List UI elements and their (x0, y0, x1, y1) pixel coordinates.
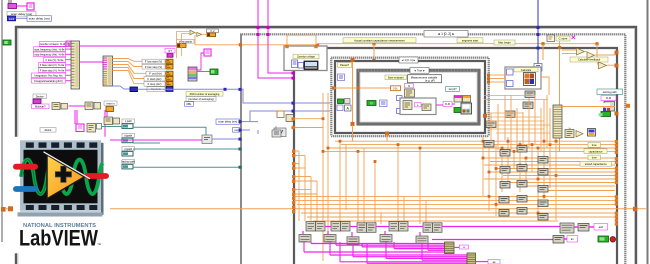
error node (106, 107, 114, 112)
orange staircase from left tunnels (296, 151, 318, 194)
calculate label (514, 68, 538, 72)
orange wire from striped block to border (562, 106, 615, 108)
violet wires into border (240, 121, 259, 123)
unbundle node grid right (484, 141, 548, 221)
stored capacitance label (580, 161, 612, 166)
svg-text:%.3f: %.3f (445, 103, 450, 106)
x-large icon near 272 (272, 130, 281, 137)
pct label (443, 102, 452, 107)
green block right (601, 112, 611, 117)
teal wire 3 (133, 148, 240, 150)
far right structure border (647, 0, 649, 264)
svg-text:◄ True ►: ◄ True ► (414, 69, 426, 73)
orange wire mid (294, 118, 324, 120)
comment box top (207, 29, 219, 33)
cascade bundle nodes row 2 (299, 235, 428, 245)
svg-text:DBL: DBL (393, 87, 399, 91)
long orange wire to sequence (195, 35, 597, 45)
wires feedback (562, 49, 576, 51)
numeric green block (338, 99, 344, 104)
DBL coercion box (185, 102, 194, 107)
svg-text:F stop (Hz): F stop (Hz) (148, 82, 162, 86)
Vrms points label (177, 39, 194, 43)
svg-text:scan delay (ms): scan delay (ms) (218, 120, 237, 124)
small orange node mid (277, 111, 284, 118)
time label 2 (588, 155, 601, 160)
comment Max begin (494, 40, 515, 45)
Multivariadic label (32, 104, 50, 109)
vrms pulse label (165, 49, 175, 53)
wire to bundle green (197, 71, 210, 73)
orange tunnels left border W2 (292, 150, 295, 214)
wire device row (69, 105, 86, 107)
svg-text:storing path: storing path (603, 90, 618, 94)
icon beige 2nd row (87, 124, 96, 133)
teal stub from icon to path box (102, 126, 123, 128)
sweep parameter indicator labels (142, 59, 165, 91)
orange drops to connector area (176, 45, 178, 58)
svg-text:Integration: %s; Avg: %s: Integration: %s; Avg: %s (34, 73, 63, 77)
while loop W2 border (294, 48, 617, 264)
tunnel right 113 (615, 112, 619, 116)
format icon (405, 89, 415, 97)
blue icons W3 (397, 96, 403, 101)
svg-text:Device: Device (36, 94, 44, 98)
svg-text:Reinit: Reinit (45, 128, 52, 132)
orange horiz 127 (294, 127, 323, 129)
svg-text:LabVIEW: LabVIEW (19, 226, 98, 251)
wire concat to format node (80, 61, 104, 63)
wires format node to terminals (113, 59, 167, 84)
svg-text:Calculate: Calculate (521, 69, 532, 72)
CdB conversion node (177, 44, 186, 48)
inner pink label (415, 103, 422, 107)
wire bundle to type icon (197, 53, 204, 70)
wires into calculate (489, 74, 505, 76)
magenta chain wires row1 (325, 226, 423, 228)
violet stub icon (275, 126, 277, 130)
svg-text:Vrms points: Vrms points (179, 40, 193, 43)
node above calc 3 (486, 121, 496, 128)
scan delay local 2 (216, 119, 240, 124)
multiply triangle 1 (190, 30, 195, 35)
svg-text:F low stop (V): F low stop (V) (145, 65, 162, 69)
blue terminal icon (534, 64, 542, 72)
case C1 selector (399, 57, 418, 63)
orange tunnels right border W2 (615, 140, 618, 226)
icon blue yellow (588, 129, 596, 137)
orange junction dots (322, 140, 558, 215)
pink label right 3 (567, 236, 578, 243)
calculate feedback label (570, 57, 608, 62)
magenta verticals row1 to row2 (303, 231, 420, 237)
orange mesh verticals (323, 93, 556, 261)
orange wire mesh horizontals (294, 141, 615, 221)
svg-text:F low start (V): F low start (V) (145, 60, 162, 64)
bundle node right 1 (560, 223, 574, 233)
magenta feeds to build array 1 (304, 244, 445, 253)
outer structure left border (1, 0, 3, 242)
question voltage label (293, 54, 319, 59)
path control labels and terminals (121, 119, 135, 169)
pink long wire to right bundle 2 (432, 239, 553, 241)
pink label near block2 (488, 260, 500, 264)
tall striped block right (553, 105, 562, 138)
dashed structure D2 border (331, 56, 489, 58)
svg-text:c path: c path (125, 120, 132, 123)
svg-text:Calculate feedback: Calculate feedback (578, 58, 601, 62)
calculate case box (505, 67, 541, 89)
build array block 2 (467, 253, 476, 264)
magenta wire from top 1 (258, 0, 293, 78)
inner case in W3 (400, 98, 436, 115)
time label (588, 143, 601, 148)
VISA open node (52, 103, 60, 110)
pink label near block1 (459, 245, 468, 249)
triangle small right (576, 131, 583, 138)
svg-text:stored capacitance: stored capacitance (585, 162, 607, 166)
feedback triangle 1 (577, 48, 585, 55)
feedback triangle 2 (587, 52, 595, 59)
inner case icon 2 (422, 104, 431, 111)
1st pF label (446, 87, 460, 92)
sequence structure S1 border (dashed) (240, 33, 626, 35)
svg-text:#04=number of averaging: #04=number of averaging (190, 92, 220, 96)
measurement variable comment (408, 75, 442, 83)
iteration count wire (138, 88, 241, 90)
svg-text:stop frequency (Hz): %-9e: stop frequency (Hz): %-9e (34, 52, 65, 56)
C store icon (547, 35, 555, 42)
build array block 1 (445, 242, 455, 254)
teal wire 1 (133, 127, 206, 135)
concatenate strings node (71, 41, 80, 89)
magenta wire to path-to-string (105, 139, 202, 141)
svg-text:F low (V): %-9e: F low (V): %-9e (46, 58, 64, 62)
vrms pulse terminal (167, 54, 173, 58)
count numeric terminal (130, 87, 138, 92)
write file icon right (604, 102, 615, 112)
comment actual constant capacitance measurement (343, 38, 416, 43)
second icon row: reinit (40, 128, 56, 133)
svg-text:backup path: backup path (121, 161, 135, 164)
svg-text:◄ 1 [0..1] ►: ◄ 1 [0..1] ► (401, 58, 416, 62)
svg-text:scan delay (ms): scan delay (ms) (11, 12, 32, 16)
bundle node right 2 (578, 224, 589, 232)
orange vertical from C store (559, 42, 561, 153)
svg-text:◄ 1 [0..2] ►: ◄ 1 [0..2] ► (437, 32, 455, 36)
wires labels to concatenate node (66, 44, 72, 81)
A icon C1 (345, 105, 352, 111)
gray icon C1 (345, 99, 351, 104)
svg-text:Max begin: Max begin (498, 41, 511, 45)
blue icon C1 low (337, 105, 343, 111)
green TF block mid (367, 101, 376, 106)
ms small local (233, 128, 240, 133)
orange constant box (207, 33, 216, 37)
pink wires right cluster (574, 226, 578, 228)
svg-text:TF: TF (370, 101, 374, 105)
cascade bundle nodes row 1 (306, 222, 442, 233)
feedback triangle 3 (599, 62, 607, 69)
wire concat to CdB node (80, 45, 178, 47)
svg-text:Question voltage: Question voltage (297, 56, 316, 59)
teal wire 4 (133, 166, 240, 168)
boolean terminal on left border (3, 40, 11, 45)
stop boolean (598, 236, 609, 242)
calc blue icon 2 (507, 81, 514, 87)
boolean constant green (210, 69, 218, 75)
DAQ icon blue 2 (298, 63, 304, 69)
C store label (556, 36, 570, 41)
svg-text:error in: error in (106, 101, 115, 105)
svg-text:(s)path: (s)path (124, 148, 132, 151)
scan delay (ms) label (7, 12, 36, 17)
pink wires out of inner case (436, 104, 443, 106)
DAQ icon blue (292, 60, 298, 68)
device terminal (33, 99, 41, 104)
right cluster icon b (463, 96, 471, 103)
upper mesh horizontals (484, 96, 550, 134)
calc orange grid icon (524, 73, 536, 86)
format into string node (103, 56, 113, 86)
case structure C1 border (335, 61, 485, 133)
while W3 border thick (358, 70, 479, 124)
green constant W3 (454, 108, 462, 113)
pink drop x105 (104, 110, 106, 140)
scan delay numeric terminal (8, 16, 16, 21)
svg-text:Vr?: Vr? (168, 50, 172, 53)
svg-text:123: 123 (9, 17, 14, 21)
mean icon (565, 130, 574, 138)
node above calc 4 (525, 91, 535, 98)
svg-text:™: ™ (97, 242, 101, 247)
orange drop at 374 (373, 44, 375, 60)
svg-text:segment start: segment start (462, 38, 479, 42)
blue wire from top (537, 0, 539, 64)
svg-text:%.3f: %.3f (606, 96, 611, 100)
orange drop at 597 (596, 44, 598, 62)
magenta wire from top 2 (268, 0, 293, 73)
svg-text:(e.g. pF): (e.g. pF) (425, 79, 435, 83)
right cluster icon a (454, 96, 462, 103)
scan delay local variable (27, 16, 52, 21)
violet step wires to W2 (240, 89, 330, 103)
LabVIEW logo block (13, 137, 110, 254)
comment segment start (457, 38, 483, 43)
averaging comment label (186, 92, 223, 97)
svg-text:Freq/puls/variable (pF/V): Freq/puls/variable (pF/V) (34, 79, 63, 83)
beige node mid (286, 115, 294, 122)
orange staircase verticals (299, 151, 317, 221)
pink long wire to right bundle (442, 226, 560, 228)
metronome icon (274, 128, 286, 137)
format pink label right (601, 96, 616, 101)
DAQ read icon (304, 61, 318, 70)
scan delay icon (27, 3, 34, 10)
error cluster label (104, 101, 117, 105)
multiply triangle 2 (197, 32, 202, 36)
violet out of icon (212, 138, 240, 140)
daq icons above logo (104, 117, 113, 125)
bundle node right 3 (553, 236, 564, 244)
capacitance label (584, 149, 607, 154)
write file icon (461, 103, 472, 114)
long orange wire across bottom (6, 208, 646, 210)
svg-text:capacitance: capacitance (589, 149, 603, 153)
svg-text:F out (Hz): F out (Hz) (149, 72, 162, 76)
svg-text:(s)path: (s)path (124, 135, 132, 138)
cluster type icon (204, 49, 211, 56)
svg-text:time: time (592, 156, 597, 160)
orange wire into QV box (287, 35, 316, 46)
sweep parameter terminals (166, 59, 173, 91)
node above calc 1 (523, 102, 533, 109)
pink drop x77 (76, 110, 78, 124)
icon pink bordered (76, 124, 84, 132)
wait icon pair lower (569, 128, 571, 130)
svg-text:start frequency (Hz): %-9e: start frequency (Hz): %-9e (34, 47, 65, 51)
teal wire 2 short (133, 142, 160, 144)
inner case icon 1 (403, 101, 412, 110)
storing path label (597, 89, 623, 94)
magenta x mark (572, 36, 576, 40)
left icon column in C1 (338, 74, 345, 81)
wait ms icon (568, 127, 570, 129)
svg-text:(number of averaging): (number of averaging) (188, 97, 214, 101)
dev label (594, 224, 608, 231)
svg-text:F bias stop (V): %-9e: F bias stop (V): %-9e (40, 68, 65, 72)
magenta feeds to build array 2 (330, 255, 467, 263)
orange vertical left of W3 (352, 60, 354, 125)
stop button red (610, 237, 616, 243)
node above calc 2 (505, 111, 515, 118)
averaging comment label 2 (186, 97, 216, 102)
W3 selector (410, 68, 429, 74)
wire to second pair (94, 105, 95, 107)
bundle by name node (188, 67, 197, 81)
svg-text:time: time (592, 143, 597, 147)
property node pair (85, 102, 93, 110)
extra verticals upper right mesh (491, 95, 550, 151)
orange tunnel D2/case right (483, 114, 487, 118)
svg-text:number of steps: %-0f: number of steps: %-0f (40, 42, 66, 46)
wire format node violet to count terminal (113, 86, 131, 89)
wire out of calculate (541, 77, 549, 95)
DBL conversion node (391, 86, 401, 91)
Save endpoint label (385, 75, 407, 80)
Device label (33, 94, 47, 98)
sequence selector label (424, 31, 468, 38)
svg-text:scan delay (ms): scan delay (ms) (29, 17, 50, 21)
path to string icon (202, 135, 212, 144)
svg-text:0..2: 0..2 (210, 30, 215, 33)
svg-text:1st pF?: 1st pF? (448, 88, 457, 91)
svg-text:Save endpoint: Save endpoint (388, 76, 404, 79)
svg-text:ao0: ao0 (599, 225, 604, 229)
violet local into W3 area (257, 130, 259, 134)
wires into triangles (177, 32, 191, 46)
svg-text:Pause?: Pause? (340, 63, 350, 67)
mini icon (97, 124, 102, 130)
magenta verticals row2 down (304, 242, 428, 263)
svg-text:Multivar?: Multivar? (35, 104, 46, 108)
orange tunnel C1 bottom (385, 132, 389, 136)
wire to scan delay local variable (16, 17, 28, 19)
string S constant (66, 41, 72, 47)
scan delay control terminal (8, 0, 12, 4)
VISA node 2 (61, 104, 68, 110)
calc blue icon 1 (507, 69, 514, 75)
svg-text:C store: C store (559, 37, 568, 41)
orange tunnel into W3 (332, 86, 335, 89)
svg-text:F bias start (V): %-9e: F bias start (V): %-9e (40, 63, 65, 67)
question voltage case box (284, 46, 327, 71)
blue icon mid (380, 100, 388, 107)
svg-text:Actual constant capacitance me: Actual constant capacitance measurement (354, 38, 405, 42)
format-string control labels column (32, 42, 66, 84)
svg-text:DBL: DBL (186, 102, 192, 106)
orange drop at 543 (542, 44, 544, 60)
svg-text:F start (Hz): F start (Hz) (148, 77, 162, 81)
Pause label (338, 63, 352, 68)
to-string pink label (405, 84, 414, 88)
